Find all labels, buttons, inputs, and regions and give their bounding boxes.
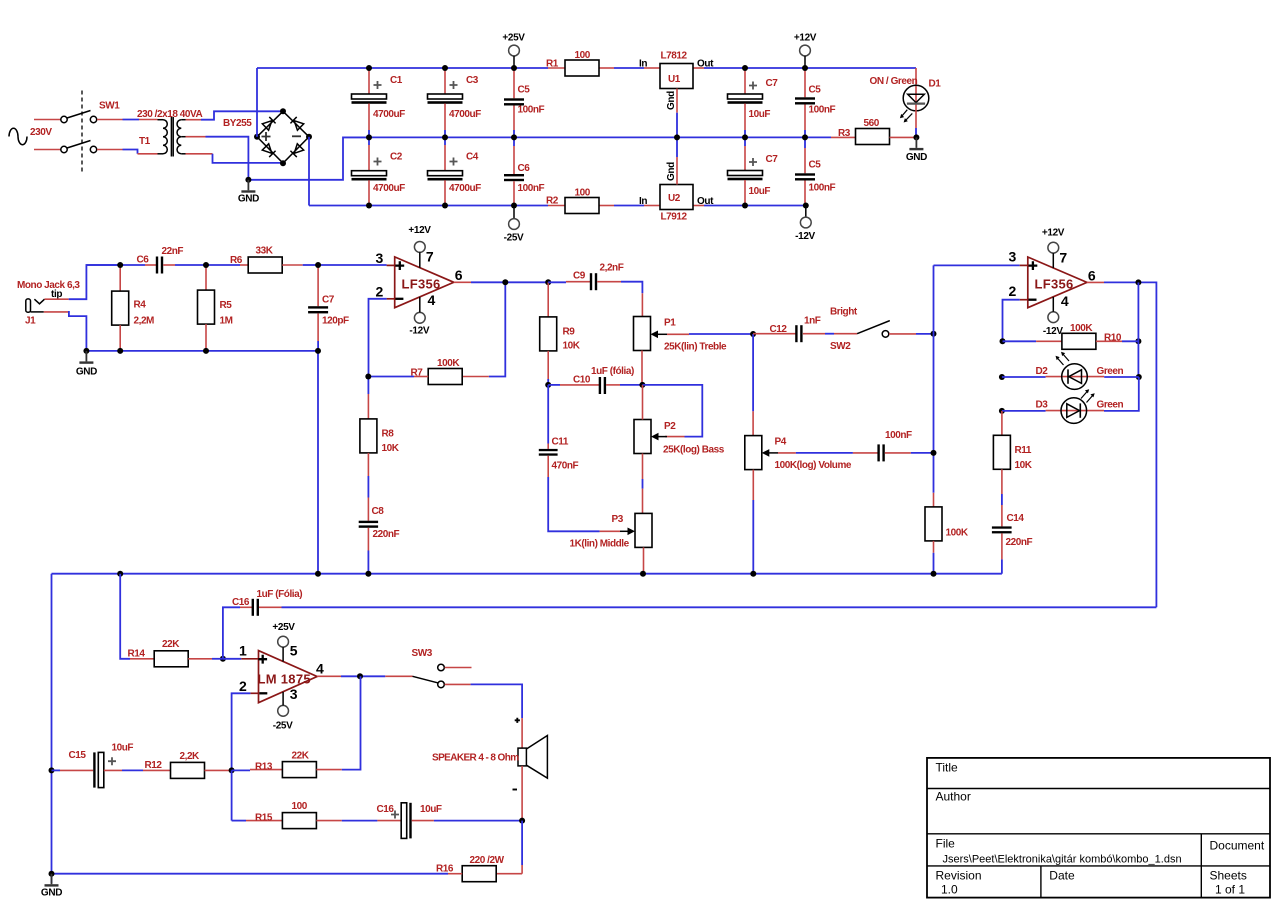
svg-text:SW2: SW2 [830, 341, 851, 352]
svg-text:C15: C15 [69, 750, 87, 761]
resistor R7 100K [368, 358, 489, 385]
resistor R1 100 [546, 50, 599, 76]
svg-text:R9: R9 [563, 327, 576, 338]
svg-text:D1: D1 [929, 79, 942, 90]
capacitor C7 120pF [308, 265, 349, 351]
svg-text:4: 4 [1061, 293, 1069, 309]
svg-text:R14: R14 [128, 649, 146, 660]
svg-text:220 /2W: 220 /2W [470, 855, 505, 866]
speaker SPEAKER 4-8 Ohm [432, 718, 547, 821]
ground at D1 [906, 134, 927, 163]
svg-text:-25V: -25V [273, 721, 293, 732]
svg-text:Author: Author [936, 790, 971, 804]
op-amp U4 LF356 [1009, 249, 1096, 308]
svg-text:R1: R1 [546, 59, 559, 70]
resistor R5 1M [198, 265, 233, 351]
regulator U1 L7812 [639, 51, 714, 138]
svg-text:C16: C16 [232, 597, 250, 608]
capacitor C16 1uF Folia [223, 589, 1157, 659]
svg-text:+12V: +12V [408, 225, 431, 236]
svg-text:J1: J1 [25, 316, 36, 327]
wire op-amp2 pin2 [1003, 300, 1028, 342]
terminal +25V [502, 33, 525, 69]
wire secondary bottom to bridge [186, 154, 282, 163]
capacitor C5 100nF [504, 68, 544, 137]
svg-text:100nF: 100nF [809, 105, 836, 116]
svg-text:5: 5 [290, 643, 298, 659]
capacitor C2 4700uF [352, 137, 406, 205]
svg-text:2: 2 [239, 678, 247, 694]
svg-text:10uF: 10uF [420, 804, 442, 815]
svg-text:10uF: 10uF [112, 743, 134, 754]
svg-text:R11: R11 [1015, 445, 1032, 456]
svg-text:T1: T1 [139, 136, 151, 147]
wire left rail down [51, 574, 53, 883]
svg-text:C5: C5 [809, 160, 822, 171]
wire center tap to GND [186, 137, 249, 180]
svg-text:10K: 10K [1015, 460, 1033, 471]
svg-text:R6: R6 [230, 255, 243, 266]
svg-text:33K: 33K [256, 246, 274, 257]
svg-text:R10: R10 [1104, 333, 1122, 344]
svg-text:1K(lin) Middle: 1K(lin) Middle [570, 539, 630, 550]
svg-text:Revision: Revision [936, 869, 982, 883]
capacitor C7 10uF [728, 68, 779, 137]
capacitor C10 1uF folia [545, 366, 642, 394]
ground bottom left [41, 871, 62, 899]
svg-text:C7: C7 [766, 78, 779, 89]
svg-text:7: 7 [426, 248, 434, 264]
wire to op-amp pin 3 [318, 264, 395, 266]
junction dot feedback [365, 279, 508, 379]
terminal +12V [794, 33, 817, 69]
svg-text:3: 3 [1009, 249, 1017, 265]
wire LM1875 pin2 [232, 693, 259, 770]
svg-text:Green: Green [1097, 366, 1124, 377]
svg-text:L7812: L7812 [661, 51, 688, 62]
svg-text:L7912: L7912 [661, 212, 688, 223]
svg-text:C7: C7 [766, 154, 779, 165]
LED D3 Green [999, 377, 1139, 423]
svg-text:P1: P1 [664, 318, 676, 329]
wire bridge - down to -25V bus [308, 137, 310, 206]
capacitor C9 2,2nF [548, 263, 642, 317]
svg-text:470nF: 470nF [552, 461, 579, 472]
svg-text:560: 560 [864, 118, 880, 129]
svg-text:C6: C6 [137, 255, 150, 266]
svg-text:Out: Out [697, 59, 714, 70]
svg-text:4: 4 [316, 660, 324, 676]
svg-text:230 /2x18 40VA: 230 /2x18 40VA [137, 109, 202, 120]
svg-text:7: 7 [1059, 249, 1067, 265]
wire [34, 149, 61, 151]
svg-text:Title: Title [936, 761, 959, 775]
svg-text:10K: 10K [382, 443, 400, 454]
switch SW3 [412, 648, 523, 718]
svg-text:25K(lin) Treble: 25K(lin) Treble [664, 342, 727, 353]
svg-text:C10: C10 [573, 375, 591, 386]
svg-text:3: 3 [376, 250, 384, 266]
capacitor C12 1nF [753, 316, 857, 343]
svg-text:10uF: 10uF [749, 109, 771, 120]
svg-text:22nF: 22nF [162, 246, 184, 257]
wire to op-amp2 pin 3 [934, 264, 1028, 266]
main lower bus wire [52, 571, 1002, 577]
svg-text:1.0: 1.0 [941, 883, 958, 897]
terminal -25V [504, 206, 524, 244]
svg-text:-12V: -12V [795, 231, 815, 242]
svg-text:2: 2 [376, 283, 384, 299]
svg-text:4700uF: 4700uF [449, 183, 481, 194]
svg-text:220nF: 220nF [1006, 537, 1033, 548]
svg-text:C5: C5 [809, 85, 822, 96]
regulator U2 L7912 [639, 137, 714, 222]
svg-text:100: 100 [292, 801, 308, 812]
svg-text:6: 6 [1088, 268, 1096, 284]
svg-text:1uF (Fólia): 1uF (Fólia) [257, 589, 303, 600]
svg-text:GND: GND [906, 152, 927, 163]
svg-text:R2: R2 [546, 196, 559, 207]
capacitor C6 100nF [504, 137, 544, 205]
svg-text:R15: R15 [255, 813, 273, 824]
svg-text:220nF: 220nF [373, 529, 400, 540]
svg-text:C2: C2 [390, 152, 403, 163]
svg-text:C8: C8 [372, 506, 385, 517]
svg-text:100K: 100K [437, 358, 460, 369]
LED D2 Green [999, 352, 1142, 390]
svg-text:C5: C5 [518, 85, 531, 96]
svg-text:R3: R3 [838, 128, 851, 139]
svg-text:P3: P3 [612, 514, 624, 525]
wire R14 node to pin1 [223, 658, 259, 660]
svg-text:100nF: 100nF [809, 183, 836, 194]
capacitor C11 470nF [539, 385, 600, 531]
capacitor C14 220nF [992, 513, 1033, 574]
potentiometer P1 25K(lin) Treble [634, 317, 754, 385]
-25V bus wire [309, 205, 806, 207]
resistor 100K volume load [925, 493, 969, 574]
junction dots top section [366, 65, 809, 209]
svg-text:10K: 10K [563, 341, 581, 352]
wire op-amp1 output [454, 281, 548, 283]
terminal -12V [795, 206, 815, 243]
svg-text:BY255: BY255 [223, 118, 252, 129]
switch SW2 Bright [830, 307, 934, 353]
svg-text:R13: R13 [255, 762, 273, 773]
op-amp U5 LM1875 [239, 643, 324, 703]
svg-text:120pF: 120pF [322, 316, 349, 327]
AC source 230V [9, 127, 52, 145]
potentiometer P2 25K(log) Bass [634, 385, 725, 514]
resistor R10 100K [1000, 282, 1142, 377]
potentiometer P4 100K(log) Volume [745, 436, 853, 574]
input GND bus wire [86, 350, 318, 352]
svg-text:R16: R16 [436, 864, 454, 875]
svg-text:4700uF: 4700uF [373, 183, 405, 194]
svg-text:Green: Green [1097, 400, 1124, 411]
svg-text:GND: GND [41, 888, 62, 899]
wire treble wiper down to P4 [750, 331, 756, 436]
svg-text:C4: C4 [466, 152, 479, 163]
potentiometer P3 1K(lin) Middle [570, 513, 653, 573]
resistor R13 22K [232, 676, 361, 777]
mid GND bus wire [343, 136, 831, 138]
svg-text:Sheets: Sheets [1210, 869, 1247, 883]
wire bridge + up to +25V bus [256, 68, 258, 137]
resistor R2 100 [546, 188, 599, 214]
svg-text:P4: P4 [775, 437, 787, 448]
svg-text:C7: C7 [322, 295, 335, 306]
svg-text:1M: 1M [220, 316, 233, 327]
svg-text:1: 1 [239, 643, 247, 659]
svg-text:100nF: 100nF [518, 183, 545, 194]
resistor R4 2,2M [112, 265, 154, 351]
svg-text:GND: GND [238, 194, 259, 205]
svg-text:25K(log) Bass: 25K(log) Bass [663, 445, 725, 456]
svg-text:100nF: 100nF [885, 430, 912, 441]
LED D1 ON/Green [870, 68, 942, 137]
svg-text:2: 2 [1009, 283, 1017, 299]
wire [34, 119, 61, 121]
resistor R15 100 [232, 770, 378, 828]
svg-text:LM 1875: LM 1875 [258, 672, 311, 687]
jack J1 Mono Jack 6,3 [17, 280, 80, 327]
svg-text:R8: R8 [382, 429, 395, 440]
capacitor C1 4700uF [352, 68, 406, 137]
pin 4 terminal -12V [409, 292, 435, 337]
svg-text:R4: R4 [134, 300, 147, 311]
svg-text:4700uF: 4700uF [373, 109, 405, 120]
svg-text:6: 6 [455, 267, 463, 283]
wire volume node vertical [931, 265, 937, 492]
svg-text:Gnd: Gnd [666, 162, 677, 181]
+25V bus wire [257, 67, 916, 69]
svg-text:+12V: +12V [1042, 228, 1065, 239]
svg-text:ON / Green: ON / Green [870, 76, 918, 87]
svg-text:LF356: LF356 [402, 277, 441, 292]
transformer T1 230/2x18 40VA [137, 109, 202, 157]
svg-text:C12: C12 [770, 324, 788, 335]
svg-text:SPEAKER 4 - 8 Ohm: SPEAKER 4 - 8 Ohm [432, 753, 519, 764]
svg-text:File: File [936, 837, 956, 851]
wire [97, 150, 158, 154]
svg-text:C16: C16 [377, 804, 395, 815]
svg-text:-25V: -25V [504, 233, 524, 244]
pin 5 terminal +25V [272, 622, 297, 662]
resistor R16 220/2W [52, 821, 523, 882]
svg-text:230V: 230V [30, 127, 52, 138]
svg-text:-12V: -12V [1043, 326, 1063, 337]
capacitor C6 22nF [86, 246, 206, 274]
svg-text:In: In [639, 196, 647, 207]
ground [238, 177, 259, 205]
svg-text:4: 4 [428, 292, 436, 308]
resistor R11 10K [993, 411, 1032, 527]
svg-text:100: 100 [575, 50, 591, 61]
svg-text:R7: R7 [411, 368, 424, 379]
svg-text:22K: 22K [292, 751, 310, 762]
svg-text:U2: U2 [668, 193, 681, 204]
svg-text:SW1: SW1 [99, 101, 120, 112]
wire op-amp2 output [1087, 279, 1157, 607]
ground at input [76, 348, 97, 378]
resistor R3 560 [831, 118, 916, 145]
svg-text:C14: C14 [1007, 513, 1025, 524]
pin 3 terminal -25V [273, 686, 298, 732]
svg-text:1nF: 1nF [804, 316, 821, 327]
resistor R6 33K [206, 246, 318, 274]
wire P2 wiper loop [639, 382, 702, 437]
svg-text:GND: GND [76, 367, 97, 378]
svg-text:4700uF: 4700uF [449, 109, 481, 120]
svg-text:+12V: +12V [794, 33, 817, 44]
resistor R14 22K [120, 574, 226, 667]
switch SW1 [61, 91, 120, 173]
svg-text:100K: 100K [1070, 323, 1093, 334]
svg-text:C3: C3 [466, 75, 479, 86]
capacitor C7 10uF lower [728, 137, 779, 205]
junction dots input [117, 262, 321, 354]
svg-text:In: In [639, 59, 647, 70]
svg-text:1 of 1: 1 of 1 [1215, 883, 1245, 897]
svg-text:Document: Document [1210, 839, 1265, 853]
wire op-amp1 pin2 [369, 299, 395, 377]
svg-text:10uF: 10uF [749, 186, 771, 197]
svg-text:1uF (fólia): 1uF (fólia) [591, 366, 634, 377]
svg-text:C9: C9 [573, 271, 586, 282]
resistor R8 10K [360, 377, 400, 498]
svg-text:R12: R12 [145, 760, 163, 771]
svg-text:C11: C11 [552, 437, 569, 448]
pin 7 terminal +12V [1042, 228, 1068, 269]
capacitor C3 4700uF [428, 68, 482, 137]
svg-text:Out: Out [697, 196, 714, 207]
capacitor C5 100nF right [795, 68, 835, 137]
svg-text:Bright: Bright [830, 307, 858, 318]
op-amp U3 LF356 [376, 250, 463, 308]
capacitor 100nF tone out [853, 430, 937, 461]
wire jack tip [45, 265, 121, 299]
pin 7 terminal +12V [408, 225, 434, 268]
svg-text:2,2K: 2,2K [180, 751, 201, 762]
svg-text:U1: U1 [668, 74, 681, 85]
svg-text:2,2nF: 2,2nF [600, 263, 624, 274]
svg-text:LF356: LF356 [1035, 277, 1074, 292]
wire secondary top to bridge [186, 111, 282, 119]
wire jack sleeve [44, 312, 87, 351]
wire GND jog below bridge [248, 137, 369, 179]
svg-text:R5: R5 [220, 300, 233, 311]
svg-text:C1: C1 [390, 75, 403, 86]
svg-text:100nF: 100nF [518, 105, 545, 116]
bridge rectifier BY255 [223, 108, 312, 166]
svg-text:100K(log) Volume: 100K(log) Volume [775, 460, 852, 471]
svg-text:Gnd: Gnd [666, 91, 677, 110]
wire C7 node down to bottom bus [317, 351, 319, 574]
svg-text:P2: P2 [664, 421, 676, 432]
svg-text:-12V: -12V [409, 326, 429, 337]
capacitor C8 220nF [359, 498, 400, 574]
svg-text:100K: 100K [946, 528, 969, 539]
svg-text:+25V: +25V [502, 33, 525, 44]
resistor R12 2,2K [143, 751, 235, 778]
capacitor C15 10uF [49, 743, 144, 788]
svg-text:C6: C6 [518, 163, 531, 174]
resistor R9 10K [540, 279, 581, 385]
svg-text:2,2M: 2,2M [134, 316, 155, 327]
svg-text:100: 100 [575, 188, 591, 199]
svg-text:+25V: +25V [272, 622, 295, 633]
pin 4 terminal -12V [1043, 293, 1069, 337]
wire [97, 119, 158, 121]
wire feedback down [489, 282, 506, 376]
svg-text:Date: Date [1049, 869, 1075, 883]
capacitor C5 100nF right lower [795, 137, 835, 205]
capacitor C16 10uF output [377, 803, 526, 839]
svg-text:Mono Jack 6,3: Mono Jack 6,3 [17, 280, 80, 291]
svg-text:Jsers\Peet\Elektronika\gitár k: Jsers\Peet\Elektronika\gitár kombó\kombo… [943, 854, 1182, 866]
wire LM1875 output [317, 673, 412, 679]
svg-text:3: 3 [290, 686, 298, 702]
capacitor C4 4700uF [428, 137, 482, 205]
svg-text:D2: D2 [1036, 366, 1049, 377]
svg-text:22K: 22K [162, 639, 180, 650]
svg-text:D3: D3 [1036, 400, 1049, 411]
svg-text:SW3: SW3 [412, 648, 433, 659]
svg-text:tip: tip [51, 289, 62, 300]
